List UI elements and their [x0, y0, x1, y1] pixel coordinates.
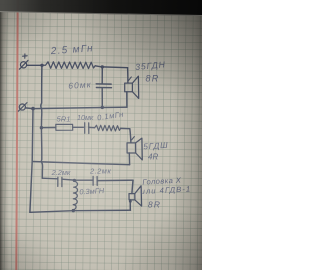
- node dot cap bottom: [101, 106, 104, 109]
- wire woofer speaker bottom vertical: [126, 92, 128, 107]
- wire tweeter branch: [42, 177, 57, 180]
- inductor L1 2.5mH: [42, 62, 95, 69]
- wire C4 to tweeter corner: [97, 179, 133, 181]
- wire tweeter speaker bottom vertical: [129, 200, 131, 210]
- plus rail vertical: [41, 65, 43, 178]
- wire mid speaker feed vertical: [130, 129, 131, 143]
- capacitor C3 2.2uF: [58, 177, 62, 187]
- polarity tick mid: [132, 137, 135, 140]
- node dot mid branch: [40, 126, 43, 129]
- polarity tick woofer: [129, 77, 132, 81]
- resistor R1 5R1: [56, 124, 73, 130]
- wire L2 to mid speaker corner: [121, 127, 130, 129]
- node dot minus terminal: [31, 107, 35, 111]
- inductor L3 0.3mH coil: [73, 181, 77, 210]
- wire bottom terminal to node: [25, 107, 33, 110]
- terminal input top: [19, 60, 28, 69]
- wire L1 to cap node: [95, 66, 102, 67]
- node dot tweeter bottom: [129, 200, 132, 203]
- capacitor C1 60uF top lead: [101, 67, 103, 84]
- capacitor C1 60uF bottom lead: [101, 88, 103, 108]
- wire mid branch to resistor: [41, 127, 55, 129]
- wire tweeter feed vertical: [132, 180, 133, 193]
- node dot top: [40, 64, 43, 67]
- capacitor C4 2.2uF: [93, 176, 97, 185]
- wire resistor to cap: [73, 126, 84, 128]
- wire mid return: [32, 162, 129, 165]
- capacitor C2 10uF: [85, 123, 89, 134]
- node dot cap top: [101, 65, 104, 68]
- capacitor C1 60uF plates: [96, 84, 111, 88]
- wire top terminal to node: [27, 64, 42, 66]
- speaker LS2 mid: [127, 138, 142, 160]
- node dot coil top: [73, 179, 76, 182]
- terminal input bottom: [18, 103, 27, 112]
- wire cap to inductor: [89, 126, 95, 128]
- minus rail vertical: [30, 109, 33, 213]
- speaker LS3 tweeter: [129, 186, 142, 206]
- terminal plus label: [23, 54, 28, 58]
- wire woofer return: [33, 107, 127, 108]
- inductor L2 0.1mH: [95, 125, 121, 131]
- bottom rail: [30, 210, 131, 212]
- speaker LS1 woofer: [125, 76, 139, 98]
- wire cap node to woofer corner: [102, 66, 127, 69]
- node dot coil bottom: [72, 209, 75, 212]
- wire C3 to C4: [62, 179, 93, 180]
- wire mid speaker bottom vertical: [128, 153, 130, 165]
- wire woofer feed vertical: [127, 68, 129, 83]
